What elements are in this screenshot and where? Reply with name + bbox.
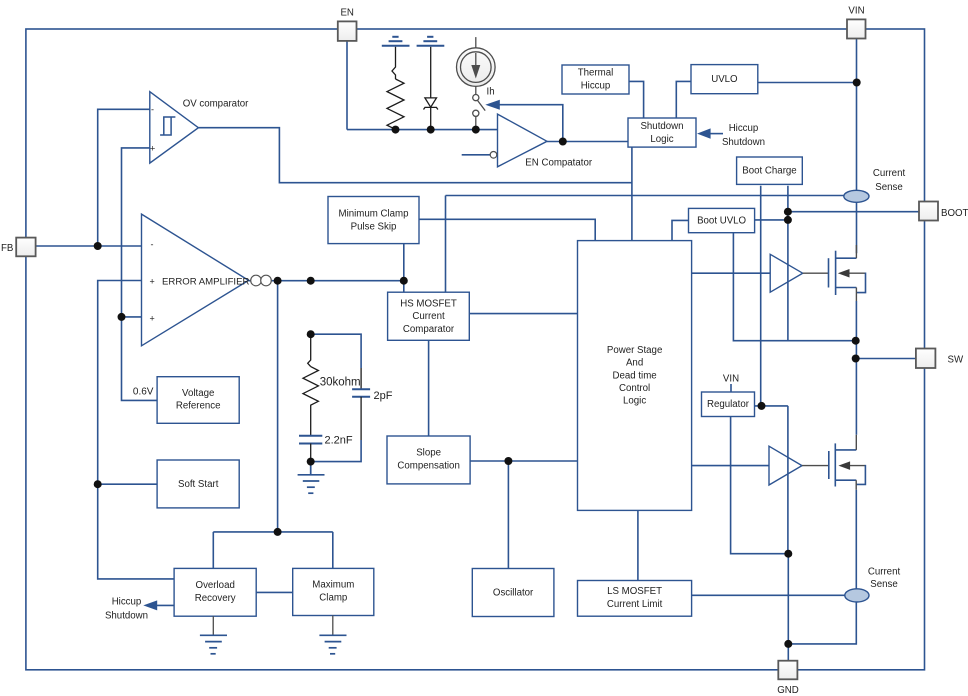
wire Boot UVLO to Power Stage (672, 220, 689, 240)
pin VIN (847, 19, 866, 38)
wire to Overload Recovery top (212, 532, 214, 569)
svg-text:Power Stage: Power Stage (607, 345, 662, 356)
wire FB pin to node A (36, 245, 142, 247)
wire error amplifier middle plus input down to Overload Recovery (98, 281, 174, 579)
svg-text:Sense: Sense (870, 579, 897, 590)
svg-text:Current: Current (873, 168, 906, 179)
svg-text:Current Limit: Current Limit (607, 599, 663, 610)
svg-text:Boot Charge: Boot Charge (742, 166, 796, 177)
pin EN (338, 21, 357, 41)
svg-text:-: - (151, 240, 154, 250)
transistor LS MOSFET (802, 435, 865, 490)
svg-text:SW: SW (948, 355, 964, 366)
svg-text:Hiccup: Hiccup (581, 80, 611, 91)
op-amp OV comparator (150, 92, 199, 163)
svg-text:Oscillator: Oscillator (493, 587, 534, 598)
svg-text:Boot UVLO: Boot UVLO (697, 215, 746, 226)
svg-text:+: + (150, 144, 155, 154)
junction compensation branch top (307, 277, 315, 285)
switch Ih (473, 95, 486, 130)
wire VIN rail down to HS MOSFET drain (856, 39, 858, 254)
junction boot rail Boot UVLO (784, 216, 792, 224)
svg-text:OV comparator: OV comparator (183, 99, 249, 110)
junction regulator output (758, 402, 766, 410)
wire Power Stage to LS gate driver (692, 465, 769, 467)
power rail symbol above pull-up resistor (382, 37, 410, 46)
svg-text:Shutdown: Shutdown (722, 137, 765, 148)
wire Minimum Clamp bottom to HS comparator top (403, 244, 405, 293)
junction EN switch (472, 126, 480, 134)
zener diode D1 (424, 47, 438, 129)
current sense ellipse bottom (845, 589, 869, 602)
junction UVLO VIN rail (853, 79, 861, 87)
gate driver LS (769, 446, 802, 485)
wire Thermal Hiccup to Shutdown Logic (629, 81, 644, 118)
block HS MOSFET Current Comparator (388, 292, 470, 340)
op-amp ERROR AMPLIFIER (142, 214, 249, 346)
svg-text:And: And (626, 358, 643, 369)
wire 2pF branch return (311, 440, 361, 462)
wire LS source return (788, 602, 856, 644)
svg-text:BOOT: BOOT (941, 208, 968, 219)
svg-text:GND: GND (777, 685, 799, 696)
block Voltage Reference (157, 377, 239, 424)
svg-text:Shutdown: Shutdown (640, 121, 683, 132)
wire Oscillator up to slope node (507, 461, 509, 569)
junction boot rail BOOT pin (784, 208, 792, 216)
svg-text:LS MOSFET: LS MOSFET (607, 586, 662, 597)
wire Boot Charge left output down to regulator node (760, 186, 762, 406)
block Soft Start (157, 460, 239, 508)
svg-text:Current: Current (412, 311, 445, 322)
svg-text:2.2nF: 2.2nF (325, 435, 353, 447)
wire Shutdown Logic down to Power Stage (631, 147, 633, 241)
wire SW node to SW pin (856, 358, 916, 360)
wire HS comparator top feed (445, 196, 447, 293)
wire error amplifier lower plus input from 0.6V rail (122, 316, 142, 318)
pin BOOT (919, 202, 938, 221)
block Oscillator (472, 569, 554, 617)
svg-text:Logic: Logic (623, 396, 646, 407)
arrowhead of hysteresis feedback pointing at switch (485, 100, 500, 110)
wire Slope Compensation to Power Stage (470, 460, 577, 462)
wire Power Stage down to LS MOSFET Current Limit (637, 510, 639, 580)
svg-text:FB: FB (1, 243, 13, 254)
wire current sense to HS comparator (446, 195, 844, 197)
block Boot UVLO (689, 208, 755, 232)
ground symbol below compensation network (298, 462, 325, 494)
capacitor 2.2nF (299, 436, 322, 444)
comparator EN Compatator (498, 114, 548, 167)
svg-text:Slope: Slope (416, 448, 441, 459)
svg-text:2pF: 2pF (374, 390, 393, 402)
block LS MOSFET Current Limit (578, 581, 692, 617)
svg-text:HS MOSFET: HS MOSFET (400, 298, 457, 309)
svg-text:Thermal: Thermal (578, 68, 614, 79)
junction ground rail upper (784, 550, 792, 558)
junction slope oscillator (504, 457, 512, 465)
wire clamp branch tee (213, 531, 332, 533)
wire Boot UVLO to boot rail (755, 219, 788, 221)
junction node FB (94, 242, 102, 250)
wire Power Stage to HS gate driver (692, 272, 771, 274)
wire EN node horizontal to EN comparator + input (347, 129, 498, 131)
svg-text:Soft Start: Soft Start (178, 479, 219, 490)
svg-text:UVLO: UVLO (711, 74, 738, 85)
pin FB (16, 238, 35, 257)
svg-text:Reference: Reference (176, 401, 221, 412)
svg-text:0.6V: 0.6V (133, 387, 154, 398)
junction EN zener (427, 126, 435, 134)
hysteresis glyph inside OV comparator (160, 117, 175, 135)
resistor EN pull-up (387, 47, 404, 130)
wire Regulator bottom to ground rail (731, 417, 789, 554)
svg-text:-: - (151, 105, 154, 115)
svg-text:Current: Current (868, 567, 901, 578)
transistor HS MOSFET (803, 245, 866, 301)
svg-text:Comparator: Comparator (403, 324, 455, 335)
junction EN resistor (392, 126, 400, 134)
svg-text:Hiccup: Hiccup (112, 597, 142, 608)
svg-text:ERROR AMPLIFIER: ERROR AMPLIFIER (162, 276, 249, 287)
junction SW node lower (852, 355, 860, 363)
svg-text:Recovery: Recovery (195, 593, 236, 604)
svg-text:Maximum: Maximum (312, 580, 354, 591)
wire UVLO to VIN rail (758, 82, 857, 84)
wire Minimum Clamp to Power Stage (419, 219, 595, 240)
svg-text:EN Compatator: EN Compatator (525, 157, 593, 168)
junction error amplifier output (274, 277, 282, 285)
capacitor 2pF (352, 389, 370, 397)
svg-text:Control: Control (619, 383, 650, 394)
wire Boot UVLO bottom to SW node (733, 233, 855, 341)
current source Ih (457, 37, 496, 94)
block UVLO (691, 65, 758, 94)
wire boot rail to BOOT pin (788, 211, 919, 213)
wire Soft Start to soft-start rail (98, 483, 157, 485)
svg-text:Minimum Clamp: Minimum Clamp (339, 209, 409, 220)
block Thermal Hiccup (562, 65, 629, 94)
wire Regulator output to LS driver rail (755, 405, 788, 407)
junction soft start rail (94, 480, 102, 488)
svg-text:EN: EN (340, 8, 353, 19)
svg-text:Pulse Skip: Pulse Skip (351, 221, 397, 232)
wire ground rail down to GND pin (787, 554, 789, 661)
wire LS driver rail down (787, 406, 789, 554)
svg-text:Sense: Sense (875, 182, 902, 193)
wire UVLO to Shutdown Logic (676, 81, 691, 118)
wire OV comparator output to Shutdown Logic column (198, 128, 632, 183)
svg-text:+: + (150, 277, 155, 287)
wire Hiccup Shutdown input stub (710, 133, 723, 135)
arrowhead Hiccup Shutdown into Shutdown Logic (697, 128, 711, 138)
block Shutdown Logic (628, 118, 696, 147)
wire EN comparator output to Shutdown Logic (547, 141, 628, 143)
svg-text:Clamp: Clamp (319, 592, 347, 603)
junction 0.6V rail at error amplifier lower plus input (118, 313, 126, 321)
block Overload Recovery (174, 568, 256, 616)
arrowhead Hiccup Shutdown out of Overload Recovery (143, 600, 157, 610)
ground symbol below Overload Recovery (200, 616, 227, 654)
svg-text:+: + (150, 314, 155, 324)
wire OV comparator plus input from 0.6V rail (122, 148, 158, 401)
output circles at error amplifier tip (251, 275, 262, 286)
wire HS comparator to Power Stage (469, 313, 577, 315)
junction ground rail lower (784, 640, 792, 648)
svg-text:30kohm: 30kohm (320, 377, 361, 389)
svg-text:Shutdown: Shutdown (105, 611, 148, 622)
wire Hiccup Shutdown stub at Overload Recovery (155, 604, 174, 606)
junction clamp branch (274, 528, 282, 536)
lead capacitor 2.2nF to ground node (310, 444, 312, 462)
wire Overload Recovery to Maximum Clamp (256, 591, 293, 593)
junction 30kohm 2pF (307, 330, 315, 338)
wire error amp output down to clamp blocks (277, 281, 279, 532)
ground symbol below Maximum Clamp (319, 616, 346, 654)
gate driver HS (770, 254, 803, 292)
block Maximum Clamp (293, 568, 374, 615)
wire VIN label to Regulator (730, 384, 732, 392)
resistor 30kohm compensation (303, 334, 318, 436)
wire HS comparator to Slope Compensation (428, 340, 430, 436)
block Slope Compensation (387, 436, 470, 484)
svg-text:Ih: Ih (487, 87, 495, 98)
svg-text:VIN: VIN (723, 374, 739, 385)
current sense ellipse top (844, 190, 869, 202)
block Boot Charge (737, 157, 803, 184)
svg-text:Logic: Logic (650, 134, 673, 145)
pin SW (916, 349, 936, 369)
wire EN comparator inverting stub (462, 154, 491, 156)
junction SW node upper (852, 337, 860, 345)
lead into capacitor 2pF (360, 368, 362, 389)
svg-text:VIN: VIN (848, 6, 864, 17)
pin GND (778, 661, 797, 680)
block Power Stage And Dead time Control Logic (578, 241, 692, 511)
svg-text:Dead time: Dead time (613, 370, 657, 381)
svg-text:Voltage: Voltage (182, 388, 214, 399)
wire EN pin down (346, 41, 348, 130)
block Regulator (702, 392, 755, 417)
wire LS MOSFET Current Limit to current sense (692, 594, 845, 596)
svg-text:Overload: Overload (196, 580, 235, 591)
power rail symbol above zener diode (417, 37, 445, 46)
wire SW power path between MOSFETs (855, 301, 857, 435)
wire node A up to OV comparator minus input (98, 109, 150, 246)
wire Boot Charge right output down boot rail (787, 186, 789, 341)
wire error amplifier output bus (249, 280, 404, 282)
junction minimum clamp branch (400, 277, 408, 285)
junction compensation ground node (307, 458, 315, 466)
wire hysteresis feedback to switch Ih (499, 105, 562, 142)
block Minimum Clamp Pulse Skip (328, 197, 419, 244)
lead capacitor 2pF down (360, 397, 362, 440)
junction EN comparator output (559, 138, 567, 146)
wire compensation branch to 2pF (311, 334, 361, 368)
wire LS MOSFET source down to current sense (855, 490, 857, 589)
inverting bubble on EN comparator lower input (490, 152, 497, 159)
svg-text:Regulator: Regulator (707, 399, 750, 410)
svg-text:Hiccup: Hiccup (729, 123, 759, 134)
wire to Maximum Clamp top (332, 532, 334, 569)
svg-text:Compensation: Compensation (397, 460, 459, 471)
